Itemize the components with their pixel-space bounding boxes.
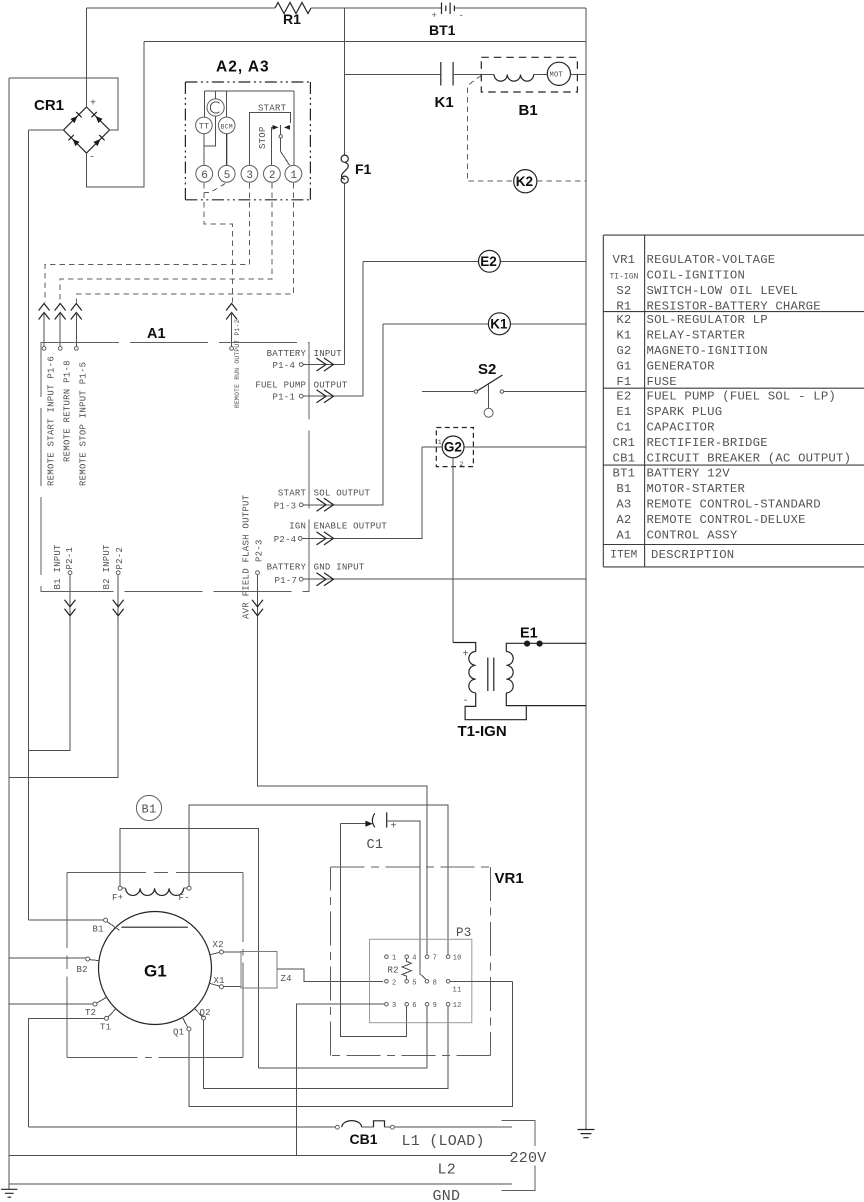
svg-text:Q2: Q2 <box>200 1008 211 1018</box>
svg-text:5: 5 <box>412 979 416 987</box>
wire: P1-3 start sol output to K1 <box>303 324 383 505</box>
motor-starter B1 dashed box <box>481 57 577 92</box>
wire: into A1 P1-6 <box>43 313 45 347</box>
svg-text:VR1: VR1 <box>495 870 524 887</box>
svg-text:TT: TT <box>199 122 210 132</box>
wire: GND line <box>9 1183 512 1185</box>
svg-text:CB1: CB1 <box>350 1131 378 1147</box>
wire: into A1 P1-8 <box>59 313 61 347</box>
wire: F+ up over to x=258.4 and down to pin 9 rail <box>120 829 258 1069</box>
svg-text:5: 5 <box>224 170 231 182</box>
connector chevrons P2-3 <box>252 600 263 616</box>
svg-text:BCM: BCM <box>221 123 233 130</box>
connector chevrons remote start input P1-6 <box>39 304 50 320</box>
wire: bus to BCM <box>226 91 228 117</box>
svg-text:X1: X1 <box>214 976 225 986</box>
svg-text:G2: G2 <box>444 440 462 455</box>
svg-text:CB1: CB1 <box>613 452 636 466</box>
node P1-1 <box>299 394 303 398</box>
svg-text:STOP: STOP <box>258 126 268 149</box>
wire: pin 3 left and down to L2 <box>297 1004 385 1155</box>
wire: G2 down to T1-IGN primary <box>452 458 454 643</box>
svg-text:G1: G1 <box>144 962 167 981</box>
connector chevrons remote run output P1-2 <box>226 304 237 320</box>
svg-text:K1: K1 <box>435 94 454 111</box>
svg-text:G2: G2 <box>616 344 631 358</box>
220V bracket <box>502 1121 535 1191</box>
wire: C1 negative to P3 pin 6 <box>341 824 407 1037</box>
connector P3 box <box>370 939 472 1022</box>
wire: dashed pin3 to remote start input <box>45 183 249 303</box>
svg-text:B1: B1 <box>93 925 104 935</box>
motor MOT circle <box>547 62 570 85</box>
node P1-6 <box>42 347 46 351</box>
svg-text:BATTERY: BATTERY <box>267 349 307 359</box>
wire: CR1 right vertex loop to x=9 rail <box>9 78 118 130</box>
svg-text:T1: T1 <box>100 1022 111 1032</box>
svg-text:INPUT: INPUT <box>314 349 343 359</box>
wire: lamp C drop joins TT wire <box>204 116 215 146</box>
svg-text:7: 7 <box>433 955 437 963</box>
terminal Q2 of G1 <box>202 1016 206 1020</box>
svg-text:E2: E2 <box>616 390 631 404</box>
terminal circle 1 <box>285 165 302 182</box>
svg-text:MAGNETO-IGNITION: MAGNETO-IGNITION <box>647 344 768 358</box>
balloon label B1 (starter callout) <box>136 795 161 820</box>
svg-text:CAPACITOR: CAPACITOR <box>647 421 716 435</box>
diode on upper-right edge of CR1 <box>96 116 103 123</box>
svg-text:BATTERY 12V: BATTERY 12V <box>647 467 731 481</box>
svg-text:K1: K1 <box>616 328 631 342</box>
svg-text:B2: B2 <box>77 965 88 975</box>
svg-text:Q1: Q1 <box>173 1028 184 1038</box>
actuator of S2 <box>488 384 490 408</box>
connector chevrons remote stop input P1-5 <box>71 304 82 320</box>
wire: B1 input down to x=28.6 rail <box>29 575 70 751</box>
node P1-8 <box>58 347 62 351</box>
svg-text:-: - <box>463 696 469 707</box>
circle BCM <box>218 117 235 134</box>
wire: T2 to x=9 rail <box>9 1003 93 1005</box>
wire: dashed pin2 to remote return <box>60 183 272 303</box>
svg-text:1: 1 <box>290 170 297 182</box>
wire: MOT to right rail <box>571 74 587 76</box>
svg-text:REMOTE CONTROL-STANDARD: REMOTE CONTROL-STANDARD <box>647 498 821 512</box>
diode on lower-left edge of CR1 <box>73 139 80 146</box>
svg-text:+: + <box>90 99 96 110</box>
svg-text:MOT: MOT <box>550 72 563 80</box>
switch blade of remote start/stop <box>280 125 282 135</box>
svg-text:P1-7: P1-7 <box>275 576 298 586</box>
svg-text:R2: R2 <box>388 966 399 976</box>
P3 pin 5 <box>405 980 409 984</box>
P3 pin 4 <box>405 955 409 959</box>
wire: X2 to Z4 <box>223 951 241 953</box>
svg-text:GND: GND <box>433 1188 461 1202</box>
arrowhead START contact <box>284 125 290 130</box>
wire: C1 left lead with arrow <box>341 823 366 825</box>
svg-text:12: 12 <box>453 1002 462 1010</box>
connector chevrons P2-1 <box>65 600 76 616</box>
terminal T1 of G1 <box>104 1016 108 1020</box>
svg-text:C1: C1 <box>616 421 631 435</box>
wire: T1 to CB1 via x=28.6 <box>29 1018 105 1127</box>
wire: coil to MOT <box>534 74 548 76</box>
svg-text:+: + <box>463 650 469 661</box>
svg-text:E1: E1 <box>520 626 538 642</box>
svg-text:FUEL PUMP: FUEL PUMP <box>255 381 306 391</box>
arrowhead STOP contact <box>273 125 279 130</box>
wire: AVR field flash output to P3 pin 7 <box>258 575 428 955</box>
svg-text:A1: A1 <box>147 326 166 342</box>
svg-text:2: 2 <box>269 170 276 182</box>
svg-text:A3: A3 <box>616 498 631 512</box>
fuel pump E2 <box>363 260 586 262</box>
wire: dashed tap to K2 solenoid <box>467 75 513 181</box>
wire: main right rail x=586 <box>585 8 587 1130</box>
terminal B2 of G1 <box>86 957 90 961</box>
svg-text:ITEM: ITEM <box>610 550 637 562</box>
sol-regulator K2 <box>514 170 537 193</box>
svg-text:S2: S2 <box>478 361 496 378</box>
svg-text:P1-1: P1-1 <box>273 393 296 403</box>
svg-text:B2 INPUT: B2 INPUT <box>102 544 112 590</box>
svg-text:P2-3: P2-3 <box>255 539 265 562</box>
svg-text:-: - <box>89 153 95 164</box>
battery BT1 <box>442 3 451 15</box>
wire: secondary bottom to rail <box>506 693 586 706</box>
terminal circle 6 <box>196 165 213 182</box>
svg-text:-: - <box>459 11 465 21</box>
wire: P1-1 fuel pump output to E2 <box>303 261 363 396</box>
svg-text:1: 1 <box>392 955 396 963</box>
core of T1-IGN <box>488 658 494 692</box>
wire: B2 input down to x=9 rail <box>9 575 118 778</box>
svg-text:FUSE: FUSE <box>647 375 677 389</box>
node P1-3 <box>299 503 303 507</box>
P3 pin 2 <box>385 980 389 984</box>
svg-text:START: START <box>278 489 307 499</box>
svg-text:AVR FIELD FLASH OUTPUT: AVR FIELD FLASH OUTPUT <box>242 494 252 619</box>
connector chevrons P2-4 <box>317 532 334 545</box>
svg-text:A1: A1 <box>616 529 631 543</box>
exciter field winding F+/F- <box>118 886 122 890</box>
node P2-3 <box>256 571 260 575</box>
connector chevrons remote return P1-8 <box>55 304 66 320</box>
svg-text:SOL OUTPUT: SOL OUTPUT <box>314 489 371 499</box>
wire: P1-4 battery input <box>303 364 345 366</box>
svg-text:9: 9 <box>433 1002 437 1010</box>
connector chevrons P1-4 <box>317 358 334 371</box>
wire: pin 11 to Q1 rail riser <box>450 980 513 982</box>
svg-text:F+: F+ <box>112 893 123 903</box>
wire: L1 load line <box>394 1126 512 1128</box>
wire: F- up to y=804.8 line over to P3 pin 10 <box>189 805 448 955</box>
resistor R1 <box>275 3 311 14</box>
wire: secondary top to spark gap E1 and rail <box>506 643 586 651</box>
svg-text:GND INPUT: GND INPUT <box>314 563 365 573</box>
wire: P2-4 ign enable output to G2 <box>302 447 422 539</box>
svg-text:DESCRIPTION: DESCRIPTION <box>651 548 734 562</box>
wire: Z4 output to P3 pin 2 <box>277 969 383 981</box>
svg-text:ENABLE OUTPUT: ENABLE OUTPUT <box>314 521 388 531</box>
svg-text:P2-2: P2-2 <box>115 547 125 570</box>
wire: second top line y=41.7 from x=144 to rail <box>144 41 586 43</box>
wire: into A1 P1-2 <box>231 313 233 347</box>
P3 pin 3 <box>385 1002 389 1006</box>
wire: vertical x=344.7 from top line down to fuse F1 <box>344 8 346 155</box>
svg-text:B1: B1 <box>616 482 631 496</box>
svg-text:1: 1 <box>438 439 442 446</box>
P3 pin 9 <box>425 1002 429 1006</box>
wire: BCM down to pin 5 (dark) <box>226 134 228 166</box>
svg-text:E1: E1 <box>616 405 631 419</box>
P3 pin 6 <box>405 1002 409 1006</box>
svg-text:BT1: BT1 <box>613 467 636 481</box>
wire: left rail x=9 down to B2 terminal and bottom ground <box>8 78 10 1189</box>
wire: dashed remote run drop (pins 5/6) to P1-2 <box>204 183 232 303</box>
svg-text:REMOTE START INPUT P1-6: REMOTE START INPUT P1-6 <box>47 356 57 486</box>
svg-text:+: + <box>391 822 397 833</box>
lamp circle C <box>207 99 224 116</box>
svg-text:SWITCH-LOW OIL LEVEL: SWITCH-LOW OIL LEVEL <box>647 284 799 298</box>
node P1-5 <box>74 347 78 351</box>
connector chevrons P1-1 <box>317 390 334 403</box>
wire: X1 to Z4 <box>223 986 241 988</box>
wire: P1-7 battery gnd input to rail <box>303 578 586 580</box>
svg-text:K2: K2 <box>516 174 533 189</box>
svg-text:CR1: CR1 <box>34 97 64 114</box>
svg-text:A2: A2 <box>616 513 631 527</box>
svg-text:CR1: CR1 <box>613 436 636 450</box>
svg-text:CIRCUIT BREAKER (AC OUTPUT): CIRCUIT BREAKER (AC OUTPUT) <box>647 452 852 466</box>
switch blade S2 <box>478 375 503 391</box>
wire: top line from R1 to BT1 <box>311 7 441 9</box>
node P2-1 <box>68 571 72 575</box>
magneto-ignition G2 dashed box <box>436 428 473 467</box>
node P1-2 <box>230 347 234 351</box>
svg-text:BATTERY: BATTERY <box>267 563 307 573</box>
svg-text:REMOTE RETURN P1-8: REMOTE RETURN P1-8 <box>63 360 73 462</box>
svg-text:2: 2 <box>392 979 396 987</box>
svg-text:P1-3: P1-3 <box>274 501 297 511</box>
diode on lower-right edge of CR1 <box>93 139 100 146</box>
svg-text:11: 11 <box>453 987 462 995</box>
svg-text:F-: F- <box>179 893 190 903</box>
regulator-voltage VR1 box <box>330 866 490 868</box>
P3 pin 7 <box>425 955 429 959</box>
P3 pin 1 <box>385 955 389 959</box>
suppressor Z4 <box>241 952 277 989</box>
svg-text:4: 4 <box>412 955 416 963</box>
P3 pin 8 <box>425 980 429 984</box>
terminal circle 5 <box>218 165 235 182</box>
svg-text:2: 2 <box>460 461 464 468</box>
diode on upper-left edge of CR1 <box>70 116 77 123</box>
wire: G2 line to rail <box>422 446 586 448</box>
wire: A2A3 internal top bus y=91 <box>205 90 294 92</box>
wire: into A1 P1-5 <box>75 313 77 347</box>
svg-text:C1: C1 <box>367 838 384 853</box>
svg-text:RELAY-STARTER: RELAY-STARTER <box>647 328 746 342</box>
svg-text:REMOTE RUN OUTPUT P1-2: REMOTE RUN OUTPUT P1-2 <box>234 319 241 408</box>
svg-text:P3: P3 <box>456 926 472 940</box>
svg-text:VR1: VR1 <box>613 253 636 267</box>
svg-text:E2: E2 <box>480 254 497 269</box>
svg-text:SPARK PLUG: SPARK PLUG <box>647 405 723 419</box>
wire: dashed pin1 to remote stop input <box>76 183 293 303</box>
solenoid coil of B1 <box>494 75 534 82</box>
svg-text:OUTPUT: OUTPUT <box>314 381 348 391</box>
wire: L2 line <box>9 1155 512 1157</box>
svg-text:REGULATOR-VOLTAGE: REGULATOR-VOLTAGE <box>647 253 776 267</box>
wire: bus down to pin 1 <box>293 91 295 165</box>
svg-text:START: START <box>258 103 287 113</box>
terminal X1 of G1 <box>219 985 223 989</box>
connector chevrons P1-7 <box>317 573 334 586</box>
wire: C1 positive to P3 pin 8 <box>387 821 427 980</box>
svg-text:SOL-REGULATOR LP: SOL-REGULATOR LP <box>647 313 768 327</box>
wire: bus to TT <box>204 91 206 117</box>
generator G1 rotor circle <box>99 912 212 1025</box>
svg-text:BT1: BT1 <box>429 22 456 38</box>
svg-text:R1: R1 <box>283 11 301 27</box>
wire: primary bottom to mounting bracket <box>465 693 526 720</box>
wire: primary top <box>453 643 476 652</box>
svg-text:Z4: Z4 <box>281 974 292 984</box>
connector chevrons P1-3 <box>317 498 334 511</box>
svg-text:P2-1: P2-1 <box>65 547 75 570</box>
ground symbol bottom left <box>1 1188 17 1190</box>
terminal X2 of G1 <box>219 950 223 954</box>
wire: top battery line y=8 from CR1 top to R1 <box>87 7 276 9</box>
svg-text:B1 INPUT: B1 INPUT <box>53 544 63 590</box>
svg-text:CONTROL ASSY: CONTROL ASSY <box>647 529 738 543</box>
parts table <box>603 235 864 567</box>
svg-text:FUEL PUMP (FUEL SOL - LP): FUEL PUMP (FUEL SOL - LP) <box>647 390 836 404</box>
capacitor C1 <box>372 813 374 827</box>
wire: x=28.6 rail down to G1 B1 terminal <box>28 130 30 920</box>
connector chevrons P2-2 <box>113 600 124 616</box>
svg-text:RECTIFIER-BRIDGE: RECTIFIER-BRIDGE <box>647 436 768 450</box>
svg-text:MOTOR-STARTER: MOTOR-STARTER <box>647 482 746 496</box>
svg-text:10: 10 <box>453 955 462 963</box>
svg-text:GENERATOR: GENERATOR <box>647 359 716 373</box>
wire: S2 left wire from G2 node <box>422 391 474 393</box>
terminal circle 3 <box>241 165 258 182</box>
svg-text:8: 8 <box>433 979 437 987</box>
wire: Q1 down to pin 11 rail <box>189 981 513 1106</box>
wire: dashed pin5 jog to pin6 drop <box>204 184 225 193</box>
stator chord <box>121 926 187 928</box>
wire: START branch from pin 3 <box>249 112 290 165</box>
svg-text:+: + <box>432 11 438 21</box>
relay-starter coil K1 circle <box>383 323 586 325</box>
svg-text:G1: G1 <box>616 359 631 373</box>
svg-text:R1: R1 <box>616 299 631 313</box>
wire: CR1 left vertex to x=28.6 rail <box>29 129 64 131</box>
svg-text:REMOTE STOP INPUT P1-5: REMOTE STOP INPUT P1-5 <box>79 362 89 486</box>
svg-text:IGN: IGN <box>289 521 306 531</box>
wire: x=9 rail to B2 terminal <box>9 957 86 959</box>
P3 pin 12 <box>446 1002 450 1006</box>
svg-text:T2: T2 <box>85 1008 96 1018</box>
terminal circle 2 <box>264 165 281 182</box>
svg-text:3: 3 <box>246 170 253 182</box>
svg-text:P2-4: P2-4 <box>274 535 297 545</box>
terminal Q1 of G1 <box>187 1027 191 1031</box>
svg-text:L1 (LOAD): L1 (LOAD) <box>402 1133 485 1150</box>
circle TT <box>196 117 213 134</box>
svg-text:TI-IGN: TI-IGN <box>609 272 638 281</box>
svg-text:K1: K1 <box>490 317 508 332</box>
wire: top line from BT1 to right rail <box>454 7 586 9</box>
node P1-7 <box>299 577 303 581</box>
svg-text:A2, A3: A2, A3 <box>216 59 270 76</box>
node P1-4 <box>299 363 303 367</box>
wire: K1/B1 starter line y=74.5 <box>345 74 441 76</box>
svg-text:6: 6 <box>412 1002 416 1010</box>
wire: bus to lamp C <box>215 91 217 99</box>
secondary winding <box>506 652 513 693</box>
svg-text:L2: L2 <box>438 1162 457 1179</box>
wire: CR1 top vertex up to top line <box>86 8 88 107</box>
wire: CR1 bottom vertex loop to y=41.7 line <box>87 42 145 187</box>
svg-text:RESISTOR-BATTERY CHARGE: RESISTOR-BATTERY CHARGE <box>647 299 821 313</box>
terminal T2 of G1 <box>93 1002 97 1006</box>
svg-text:F1: F1 <box>355 161 372 177</box>
wire: x=28.6 rail to B1 terminal <box>29 919 104 921</box>
svg-text:T1-IGN: T1-IGN <box>458 723 507 740</box>
P3 pin 11 <box>446 980 450 984</box>
svg-text:B1: B1 <box>519 102 538 119</box>
svg-text:3: 3 <box>392 1002 396 1010</box>
P3 pin 10 <box>446 955 450 959</box>
svg-text:K2: K2 <box>616 313 631 327</box>
wire: from F1 down to A1 battery input <box>344 183 346 364</box>
circuit breaker CB1 <box>29 1126 336 1128</box>
wire: dashed K2 to rail <box>537 180 586 182</box>
wire: TT down to pin 6 <box>203 134 205 166</box>
svg-text:COIL-IGNITION: COIL-IGNITION <box>647 268 746 282</box>
terminal B1 of G1 <box>104 918 108 922</box>
svg-text:F1: F1 <box>616 375 631 389</box>
svg-text:B1: B1 <box>142 803 157 817</box>
wire: S2 right wire to rail <box>504 391 586 393</box>
svg-text:REMOTE CONTROL-DELUXE: REMOTE CONTROL-DELUXE <box>647 513 806 527</box>
wire: pin 9 down to F+ rail <box>258 1006 427 1068</box>
wire: K1 to B1 coil <box>453 74 494 76</box>
spark plug E1 gap dots <box>524 641 530 647</box>
ground at bottom of right rail <box>578 1129 595 1131</box>
node P2-2 <box>116 571 120 575</box>
wire: Q2 down to pin 12 rail <box>204 1006 448 1088</box>
relay contact K1 (plates) <box>441 62 453 86</box>
generator G1 assembly box <box>67 872 243 874</box>
fuse F1 <box>341 155 348 162</box>
svg-text:S2: S2 <box>616 284 631 298</box>
svg-text:6: 6 <box>201 170 208 182</box>
svg-text:P1-4: P1-4 <box>273 361 296 371</box>
wire: STOP branch from pin 2 <box>272 127 274 165</box>
svg-text:X2: X2 <box>213 940 224 950</box>
svg-text:220V: 220V <box>510 1150 547 1167</box>
node P2-4 <box>298 537 302 541</box>
primary winding <box>469 652 476 693</box>
